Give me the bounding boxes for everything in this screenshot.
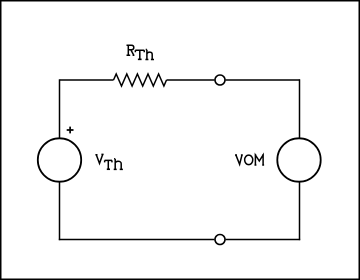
label VOM : letter O — [245, 155, 253, 165]
wire right vertical lower — [299, 182, 301, 240]
node terminal top (open circle) — [215, 75, 225, 85]
wire top-right horizontal — [226, 79, 300, 81]
source V_Th circle — [38, 138, 81, 181]
meter VOM circle — [277, 138, 320, 181]
plus polarity mark — [67, 127, 74, 134]
wire top-left horizontal — [60, 79, 114, 81]
wire right vertical upper — [299, 79, 301, 138]
label R_Th : subscript Th — [135, 50, 154, 60]
label VOM : letter V — [235, 155, 243, 164]
label R_Th : letter R — [127, 45, 135, 55]
wire left vertical lower — [59, 182, 61, 240]
wire bottom-left horizontal — [59, 239, 215, 241]
node terminal bottom (open circle) — [215, 235, 225, 245]
label V_Th : letter V — [95, 154, 103, 163]
label V_Th : subscript Th — [105, 159, 123, 170]
wire top-middle horizontal — [167, 79, 215, 81]
resistor R_Th — [114, 74, 167, 86]
label VOM : letter M — [255, 155, 265, 165]
wire left vertical upper — [59, 79, 61, 138]
wire bottom-right horizontal — [226, 239, 301, 241]
